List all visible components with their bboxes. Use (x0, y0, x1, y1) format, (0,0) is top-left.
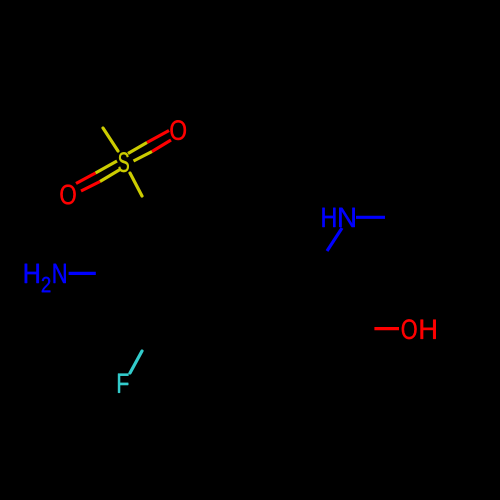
double bond S=O bottom-left, line 2 O half (81, 182, 100, 192)
double bond S=O bottom-left, line 1 O half (76, 173, 96, 184)
double bond S=O top-right, line 2 S half (134, 152, 153, 162)
bond N-C from amino group, N half (69, 272, 96, 275)
hydroxyl OH: H glyph (421, 320, 436, 339)
atom label S (sulfonyl sulfur) (119, 152, 129, 172)
methylamino HN: N glyph (339, 208, 354, 227)
bond S-C(ring), S half (130, 173, 142, 196)
bond N-CH3, N half (to right) (356, 216, 385, 219)
bond N-CH2, N half (down-left) (327, 228, 342, 251)
atom label O (sulfonyl oxygen, top right) (170, 120, 185, 140)
amino group H2N: N glyph (54, 264, 66, 283)
atom label O (sulfonyl oxygen, bottom left) (60, 185, 75, 205)
double bond S=O bottom-left, line 2 S half (100, 170, 120, 182)
double bond S=O bottom-left, line 1 S half (96, 161, 118, 173)
methylamino HN: H glyph (322, 208, 335, 227)
hydroxyl OH: O glyph (402, 319, 417, 339)
bond C-S to methyl carbon (103, 128, 118, 151)
amino group H2N: H glyph (25, 264, 39, 283)
double bond S=O top-right, line 1 S half (128, 143, 147, 154)
double bond S=O top-right, line 2 O half (152, 140, 171, 152)
amino group H2N: subscript 2 (42, 277, 50, 292)
bond C-O to hydroxyl, O half (374, 327, 399, 330)
atom label F (fluorine) (118, 374, 128, 393)
double bond S=O top-right, line 1 O half (147, 131, 169, 143)
bond C-F, F half (130, 351, 142, 373)
